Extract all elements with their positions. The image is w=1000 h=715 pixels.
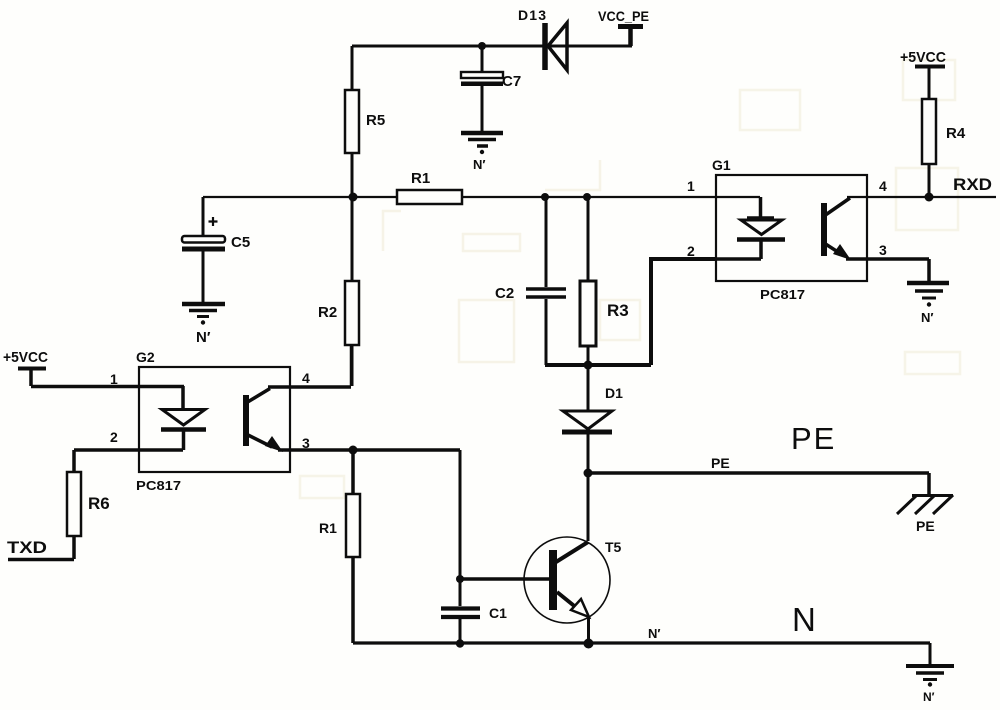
wire G2 pin2 xyxy=(74,448,183,452)
capacitor C7 xyxy=(461,46,521,131)
node bus/C2 xyxy=(541,193,549,201)
svg-text:+5VCC: +5VCC xyxy=(900,49,946,66)
ground N' under G1 pin3 xyxy=(907,259,949,325)
phototransistor inside G2 xyxy=(243,387,351,452)
svg-text:1: 1 xyxy=(687,178,695,194)
svg-text:1: 1 xyxy=(110,371,118,387)
power +5VCC right xyxy=(900,49,946,67)
svg-text:T5: T5 xyxy=(605,539,622,555)
capacitor C5 xyxy=(182,197,250,302)
svg-text:2: 2 xyxy=(110,429,118,445)
node base / C1 xyxy=(456,575,464,583)
svg-text:R3: R3 xyxy=(607,301,629,320)
node T5 emitter / N rail xyxy=(584,639,594,649)
svg-text:N: N xyxy=(792,601,816,638)
svg-text:N′: N′ xyxy=(921,310,934,325)
svg-text:N′: N′ xyxy=(196,329,211,346)
resistor R4 xyxy=(922,66,966,197)
svg-text:D1: D1 xyxy=(605,385,623,401)
svg-text:C7: C7 xyxy=(502,73,521,90)
ground N' under C5 xyxy=(182,304,225,346)
svg-text:R1: R1 xyxy=(319,520,337,536)
svg-text:+5VCC: +5VCC xyxy=(3,349,48,366)
node C1 / N rail xyxy=(456,639,464,647)
svg-text:C1: C1 xyxy=(489,605,507,621)
resistor R5 xyxy=(345,46,385,197)
wire G1 pin2 internal xyxy=(716,257,761,261)
node loop bottom / D1 xyxy=(584,361,593,370)
wire G1 pin2 net xyxy=(651,259,716,365)
optocoupler G2 xyxy=(136,349,290,493)
diode D13 xyxy=(518,7,567,70)
ground N' under C7 xyxy=(461,133,503,172)
optocoupler G1 xyxy=(712,157,867,302)
svg-text:C2: C2 xyxy=(495,285,514,302)
resistor R1 vertical xyxy=(319,450,360,643)
wire N bottom rail xyxy=(353,641,930,644)
svg-text:PC817: PC817 xyxy=(760,287,805,302)
svg-text:PC817: PC817 xyxy=(136,478,181,493)
svg-text:R6: R6 xyxy=(88,494,110,513)
wire main bus left xyxy=(203,196,760,198)
svg-text:D13: D13 xyxy=(518,7,546,23)
svg-text:2: 2 xyxy=(687,243,695,259)
wire G1 pin3 xyxy=(846,257,929,261)
node bus/R5/R2 xyxy=(349,193,358,202)
transistor T5 xyxy=(524,473,622,643)
resistor R2 xyxy=(318,197,359,386)
svg-text:C5: C5 xyxy=(231,234,250,251)
wire top rail xyxy=(352,45,632,48)
svg-text:RXD: RXD xyxy=(953,175,992,194)
ground N' right xyxy=(906,643,954,704)
svg-text:R2: R2 xyxy=(318,304,337,321)
wire T5 base xyxy=(460,577,549,581)
svg-text:PE: PE xyxy=(791,421,836,456)
power terminal VCC_PE xyxy=(598,8,649,46)
resistor R3 xyxy=(580,197,629,365)
capacitor C1 xyxy=(441,450,507,643)
node bus/R3 xyxy=(583,193,591,201)
svg-text:R4: R4 xyxy=(946,125,966,142)
wire PE rail xyxy=(588,471,929,475)
diode D1 xyxy=(562,365,623,473)
LED inside G1 xyxy=(737,197,785,259)
wire main bus right (RXD) xyxy=(847,196,996,198)
chassis ground PE xyxy=(897,473,953,534)
resistor R1 horizontal xyxy=(397,170,462,204)
svg-text:R1: R1 xyxy=(411,170,430,187)
capacitor C2 xyxy=(495,197,566,365)
resistor R6 xyxy=(67,450,110,559)
svg-text:3: 3 xyxy=(302,435,310,451)
phototransistor inside G1 xyxy=(821,198,851,260)
svg-text:3: 3 xyxy=(879,242,887,258)
svg-text:N′: N′ xyxy=(923,690,935,704)
scan artifacts (decorative, faint) xyxy=(300,60,960,498)
svg-text:4: 4 xyxy=(879,178,887,194)
LED inside G2 xyxy=(161,386,206,450)
svg-text:PE: PE xyxy=(916,518,935,534)
node PE xyxy=(584,469,593,478)
port TXD xyxy=(7,538,74,560)
node bus/R4 RXD xyxy=(925,193,934,202)
svg-text:PE: PE xyxy=(711,455,730,471)
svg-text:N′: N′ xyxy=(473,157,486,172)
svg-text:VCC_PE: VCC_PE xyxy=(598,8,649,24)
node pin3 / R1 vertical xyxy=(349,446,358,455)
svg-text:G2: G2 xyxy=(136,349,155,365)
node junction top rail / C7 xyxy=(478,42,486,50)
svg-text:4: 4 xyxy=(302,370,310,386)
wire loop bottom C2/R3 xyxy=(545,363,651,367)
power +5VCC left xyxy=(3,349,48,386)
svg-text:R5: R5 xyxy=(366,112,385,129)
svg-text:TXD: TXD xyxy=(7,538,47,557)
svg-text:N′: N′ xyxy=(648,626,661,641)
wire G2 pin3 net xyxy=(278,448,460,452)
svg-text:G1: G1 xyxy=(712,157,731,173)
wire G2 pin4 to R2 xyxy=(350,345,354,386)
wire G2 pin1 xyxy=(31,385,184,389)
